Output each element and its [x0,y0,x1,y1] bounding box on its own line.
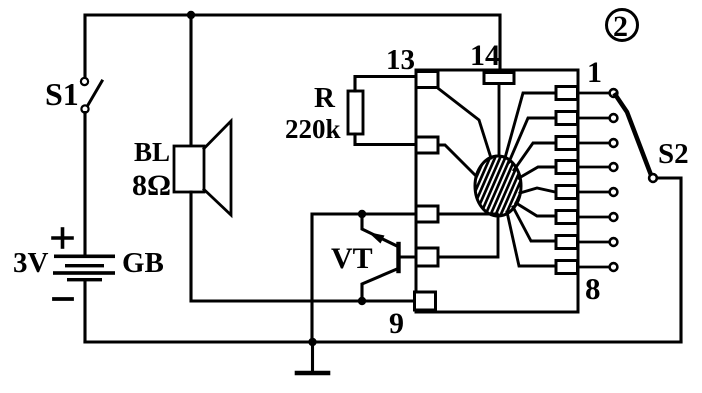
switch S1 [81,78,89,113]
pad B (R lower) [416,137,438,153]
bond wire pad B to die [439,145,476,176]
transistor VT base lead [399,255,416,258]
pin 14 pad [484,73,514,84]
wire pad C to ground branch [312,214,416,342]
bond wire pad C to die [438,213,497,216]
node VT upper junction [358,210,366,218]
svg-text:8Ω: 8Ω [132,169,171,202]
right pads pins 1-8 [556,87,578,274]
bond wire pad D to die [438,215,498,257]
bond wire pin2 to die [509,118,555,162]
wire speaker top drop [189,15,192,147]
svg-text:13: 13 [386,44,415,76]
battery GB [53,255,115,282]
svg-text:220k: 220k [285,114,341,144]
wire top bus [85,15,500,79]
svg-text:9: 9 [389,307,404,340]
S2 contacts 1-8 [610,89,618,271]
figure number 2 [607,10,638,44]
svg-text:8: 8 [585,271,601,306]
bond wire pin13 to die [439,89,491,158]
bond wire pin8 to die [507,212,555,266]
wire battery to bottom bus [83,281,86,342]
pad D (base drive) [416,248,438,266]
transistor VT emitter arrow [368,232,385,244]
wire R bottom to pad B [355,134,416,145]
svg-text:3V: 3V [13,247,49,279]
wire speaker bottom to pin9 [191,192,416,301]
switch S2 blade [616,95,652,175]
pad C (osc) [416,206,438,222]
melody chip die (hatched) [449,131,548,241]
bond wire pin14 to die [498,84,501,156]
svg-text:14: 14 [470,39,500,72]
node speaker tap on top bus [187,11,195,19]
switch S1 blade [88,81,102,105]
IC body [416,70,578,312]
transistor VT base bar [396,244,400,271]
svg-text:R: R [314,82,336,114]
ground [297,342,328,373]
bond wire pin1 to die [505,93,555,158]
node ground junction [308,338,316,346]
svg-text:S2: S2 [658,138,689,170]
svg-text:2: 2 [613,10,628,43]
wires pins 1-8 to S2 contacts [578,93,610,267]
pin 9 pad [415,292,436,310]
bond wire pin7 to die [513,207,555,241]
wire S2 common to right bus [657,178,681,342]
svg-text:1: 1 [587,56,602,89]
S2 common contact [649,174,657,182]
transistor VT emitter lead [362,214,397,246]
label - polarity [54,297,72,301]
svg-text:S1: S1 [45,76,79,112]
bond wire pin6 to die [516,203,555,216]
wire bottom bus [85,340,681,343]
svg-text:GB: GB [122,247,164,279]
bond wire pin5 to die [520,188,555,193]
node VT lower junction [358,297,366,305]
svg-text:BL: BL [134,137,170,167]
bond wire pin4 to die [519,167,555,178]
speaker BL [174,121,231,215]
pin 13 pad [416,72,438,88]
resistor R [348,91,363,134]
wire S1 to battery [83,113,86,256]
svg-text:VT: VT [331,242,373,275]
label + polarity [53,229,72,247]
bond wire pin3 to die [514,143,555,170]
wire R top to pin13 [355,77,416,92]
transistor VT collector lead [362,269,397,301]
